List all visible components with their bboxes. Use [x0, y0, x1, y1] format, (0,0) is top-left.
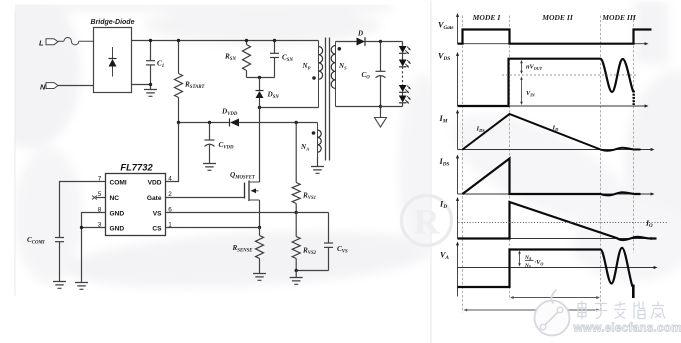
watermark circled-R [402, 196, 452, 246]
ground (NA) [311, 157, 324, 174]
axis IDS [456, 155, 655, 196]
svg-text:ID: ID [552, 125, 560, 132]
svg-text:DVDD: DVDD [221, 108, 238, 118]
phase dot NA [312, 131, 316, 135]
svg-text:R: R [414, 202, 441, 242]
svg-text:IM: IM [439, 114, 448, 125]
axis VGate [456, 13, 649, 45]
waveform VA [458, 248, 633, 287]
svg-text:4: 4 [168, 176, 172, 183]
wire RVS2 CVS bottom [296, 270, 328, 272]
svg-text:VIN: VIN [526, 90, 536, 97]
ground (CVDD) [203, 164, 216, 171]
waveform VDS [458, 59, 634, 106]
watermark text dianzifashaoyou [578, 301, 665, 320]
axis VDS [456, 52, 649, 108]
wire top rail [132, 40, 319, 42]
diode D [357, 37, 403, 46]
LED D1 [399, 42, 411, 55]
svg-text:ID: ID [439, 200, 447, 211]
ground (CCOMI) [53, 282, 66, 289]
transformer core [326, 38, 330, 161]
svg-text:MODE III: MODE III [601, 13, 637, 22]
arrow nVOUT [520, 60, 523, 74]
wire secondary bottom [336, 106, 403, 108]
LED D3 [399, 85, 411, 93]
svg-text:NP: NP [302, 62, 311, 71]
label NA/NS VO [524, 255, 543, 269]
wire CS [166, 227, 260, 229]
dotted IO level [459, 222, 669, 224]
axis ID [456, 197, 655, 240]
wire snubber bottom [247, 77, 275, 79]
svg-text:L: L [39, 39, 44, 48]
capacitor CCOMI [55, 238, 64, 282]
wire VS [166, 212, 297, 214]
svg-text:VDS: VDS [438, 52, 450, 63]
diode DVDD [230, 119, 240, 127]
pin NC stub [92, 196, 106, 200]
axis IM [456, 110, 655, 152]
wire primary bottom [260, 107, 319, 109]
ground (RVS2) [290, 271, 303, 285]
wire secondary top [336, 41, 357, 43]
svg-text:VGate: VGate [438, 21, 454, 32]
ground (IC GND) [75, 283, 88, 290]
wire GND pins [82, 213, 106, 283]
phase dot NP [312, 76, 316, 80]
svg-text:D: D [357, 29, 363, 37]
svg-text:·VO: ·VO [535, 259, 544, 266]
pin labels left [110, 179, 127, 232]
wire bottom rail bridge to C1 [132, 84, 151, 86]
resistor RSN [243, 41, 251, 78]
svg-text:Gate: Gate [147, 195, 162, 202]
svg-text:MODE I: MODE I [472, 13, 502, 22]
ground (RSENSE) [253, 274, 266, 281]
wire VS to CVS [296, 212, 328, 214]
svg-text:Bridge-Diode: Bridge-Diode [91, 19, 135, 26]
svg-text:CSN: CSN [282, 54, 293, 64]
waveform ID [458, 202, 657, 240]
svg-text:RSTART: RSTART [184, 81, 206, 91]
fuse F1 [58, 38, 94, 45]
svg-text:COMI: COMI [110, 179, 127, 186]
ground (C1) [144, 85, 157, 97]
resistor RSENSE [256, 228, 264, 274]
dashed VIN level [502, 74, 638, 76]
ground (secondary) [375, 107, 387, 128]
winding NP [319, 41, 323, 108]
arrow period [464, 309, 601, 312]
bridge-diode BR1 [94, 28, 132, 93]
waveform IDS [463, 159, 641, 196]
wire COMI [60, 182, 106, 238]
capacitor C1 [146, 41, 155, 85]
svg-text:nVOUT: nVOUT [526, 64, 543, 71]
waveform IM [463, 114, 641, 151]
svg-text:VA: VA [440, 251, 449, 262]
resistor RVS2 [292, 213, 300, 271]
wire VDD rail [179, 122, 230, 124]
connector L [46, 39, 58, 45]
svg-text:RVS1: RVS1 [302, 192, 316, 202]
resistor RSTART [175, 41, 183, 123]
connector N [46, 83, 58, 89]
svg-text:GND: GND [110, 225, 125, 232]
arrow mode II duration [510, 296, 600, 299]
svg-text:FL7732: FL7732 [120, 162, 153, 173]
svg-text:CVDD: CVDD [219, 141, 234, 151]
waveform VGate [458, 30, 652, 44]
axis VA [456, 242, 658, 297]
winding NA [318, 123, 322, 157]
mode boundary dashed lines [463, 16, 634, 313]
capacitor CVS [324, 213, 333, 271]
phase dot NS [338, 47, 342, 51]
arrow VIN [520, 77, 523, 106]
wire VDD pin drop [166, 123, 179, 182]
svg-text:MODE II: MODE II [541, 13, 574, 22]
svg-text:DSN: DSN [267, 91, 280, 101]
transistor QMOSFET [245, 181, 260, 202]
svg-text:RSN: RSN [224, 53, 236, 63]
LED D2 [399, 53, 411, 68]
svg-text:GND: GND [110, 210, 125, 217]
wire source [259, 200, 261, 228]
svg-text:NS: NS [338, 62, 347, 71]
svg-text:C1: C1 [157, 60, 164, 70]
wire drain [259, 108, 261, 183]
capacitor CVDD [205, 123, 215, 164]
svg-text:VDD: VDD [148, 179, 162, 186]
svg-text:NS: NS [524, 263, 531, 269]
svg-text:NA: NA [300, 143, 309, 152]
watermark logo circle [535, 290, 570, 336]
svg-text:www.elecfans.com: www.elecfans.com [573, 321, 681, 335]
wire N to bridge [58, 85, 94, 87]
arrow NA/NS VO [518, 251, 521, 267]
svg-text:QMOSFET: QMOSFET [230, 171, 256, 181]
wire LED dashed [402, 67, 404, 85]
svg-text:N: N [40, 82, 46, 91]
pin labels right [147, 179, 162, 232]
pin numbers [98, 176, 173, 229]
svg-text:IDS: IDS [439, 157, 450, 168]
diode DSN [256, 78, 264, 108]
svg-text:CO: CO [362, 71, 371, 81]
capacitor CO [376, 42, 386, 107]
svg-text:CS: CS [152, 225, 162, 232]
svg-text:VS: VS [153, 210, 162, 217]
LED D4 [399, 92, 411, 106]
winding NS [331, 42, 335, 107]
wire gate [166, 197, 245, 199]
capacitor CSN [270, 41, 279, 78]
svg-text:NC: NC [110, 195, 120, 202]
op-amp U1 FL7732 [106, 174, 166, 236]
resistor RVS1 [292, 123, 300, 213]
